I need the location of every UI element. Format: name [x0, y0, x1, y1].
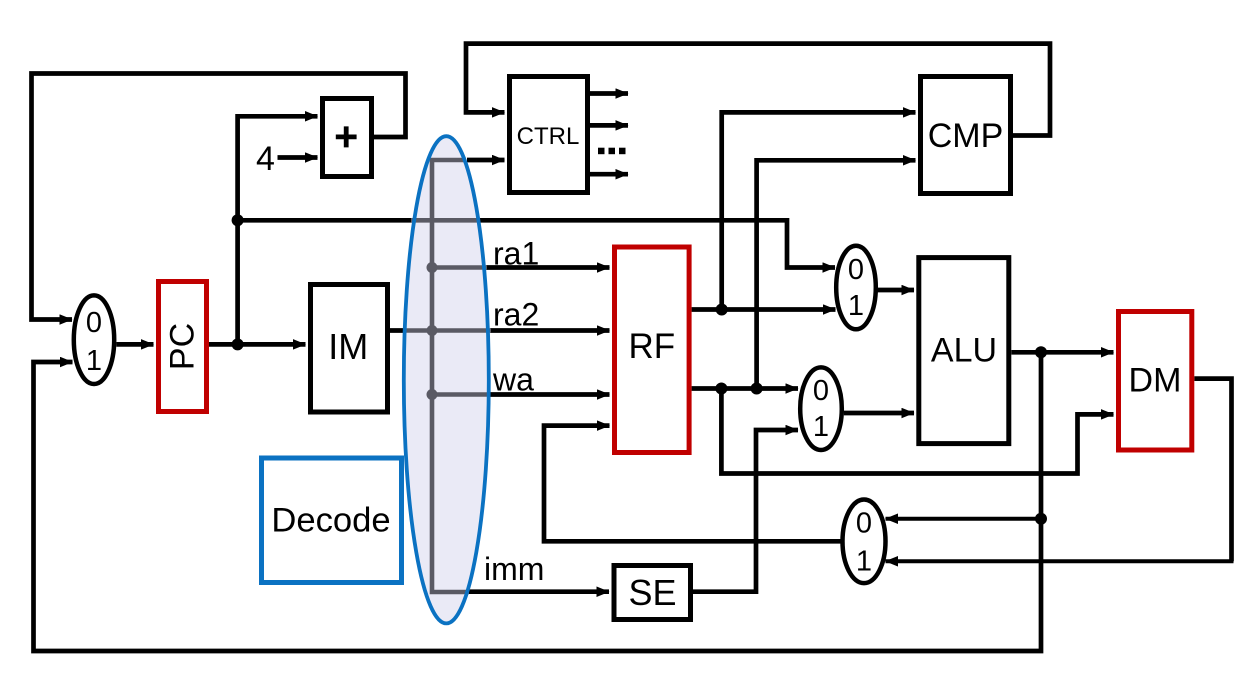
wire PC value long horizontal to upper ALU mux input 0 [238, 220, 835, 267]
junction on PC output [232, 338, 244, 350]
junction ALU result write-back branch [1035, 513, 1047, 525]
svg-text:CMP: CMP [928, 117, 1004, 155]
svg-text:1: 1 [848, 290, 864, 322]
gray bus stub wa [432, 392, 490, 397]
wire bus opcode to CTRL [467, 158, 505, 163]
svg-text:Decode: Decode [271, 502, 390, 540]
svg-text:0: 0 [856, 508, 872, 540]
wire imm to SE [467, 589, 609, 594]
svg-text:IM: IM [328, 326, 368, 367]
ALU operand-2 mux [800, 367, 842, 450]
gray bus stub ra2 with IM input [404, 328, 491, 333]
control unit CTRL [510, 77, 588, 193]
svg-text:ALU: ALU [931, 332, 997, 370]
wire RF read-data-2 to lower ALU mux input 0 [692, 386, 798, 391]
adder + [323, 99, 372, 177]
wire CTRL control output 2 [590, 123, 628, 128]
PC source mux [74, 295, 114, 384]
svg-text:1: 1 [813, 411, 829, 443]
wire PC-mux output to PC [116, 342, 153, 347]
svg-text:ra1: ra1 [493, 236, 539, 272]
wire lower mux output to ALU input 2 [844, 411, 914, 416]
ellipsis dots for control outputs [598, 148, 626, 155]
wire RF read-data-1 to upper ALU mux input 1 [692, 307, 836, 312]
decode block [262, 458, 402, 583]
instruction memory IM [311, 285, 388, 413]
wire ALU result to write-back mux input 0 [886, 517, 1042, 521]
junction on PC vertical at long horizontal [232, 214, 244, 226]
wire CTRL control output 1 [590, 91, 628, 96]
svg-text:SE: SE [628, 572, 676, 613]
svg-text:0: 0 [848, 254, 864, 286]
gray junction ra1 [427, 262, 438, 273]
junction read-data-2 store branch [715, 383, 727, 395]
junction ALU output branch [1035, 346, 1047, 358]
wire SE output to lower ALU mux input 1 [693, 430, 798, 592]
wire CTRL control output 3 [590, 172, 628, 177]
wire DM output final leg into write-back mux input 1 [886, 559, 1234, 563]
svg-text:DM: DM [1129, 362, 1182, 400]
wire write-back mux output to RF write-data [544, 426, 841, 542]
decode bus ellipse outline [404, 136, 489, 623]
svg-text:RF: RF [628, 327, 675, 366]
wire PC value up to adder input 1 [238, 116, 318, 344]
junction read-data-2 CMP branch [751, 383, 763, 395]
wire ALU output to DM address [1011, 350, 1113, 355]
wire IM output to decode bus [390, 328, 432, 333]
write-back mux [843, 500, 886, 584]
svg-text:imm: imm [484, 551, 544, 587]
decode bus ellipse fill [404, 136, 489, 623]
wire ALU result down across bottom to PC mux input 1 [34, 352, 1042, 651]
program counter PC [159, 282, 207, 412]
svg-text:ra2: ra2 [493, 297, 539, 333]
junction read-data-1 branch [716, 304, 728, 316]
gray bus segment of long PC wire inside ellipse [411, 218, 479, 223]
svg-text:0: 0 [813, 375, 829, 407]
wire constant 4 to adder input 2 [278, 155, 318, 160]
gray junction ra2 [427, 325, 438, 336]
wire store-data from read-data-2 down to DM write input [721, 389, 1113, 474]
data memory DM [1119, 312, 1192, 451]
svg-text:4: 4 [256, 140, 275, 178]
gray bus stub ra1 [432, 265, 487, 270]
sign extend SE [614, 566, 691, 620]
wire upper mux output to ALU input 1 [878, 288, 915, 293]
wire wa to RF [489, 392, 610, 397]
arithmetic logic unit ALU [919, 258, 1009, 444]
svg-text:1: 1 [86, 345, 102, 377]
wire read-data-1 up to CMP input 1 [722, 112, 916, 309]
svg-text:wa: wa [492, 362, 534, 398]
gray junction wa [427, 389, 438, 400]
comparator CMP [921, 77, 1011, 194]
gray bus vertical with top corner to CTRL and bottom corner to imm [432, 160, 469, 592]
wire DM output to write-back mux input 1 [1194, 379, 1231, 562]
wire CMP output loop to CTRL input [466, 44, 1050, 136]
wire read-data-2 up to CMP input 2 [757, 160, 916, 388]
wire ra1 to RF [486, 265, 610, 270]
svg-text:0: 0 [86, 307, 102, 339]
svg-text:1: 1 [856, 546, 872, 578]
wire PC output to IM [209, 342, 306, 347]
wire ra2 to RF [490, 328, 610, 333]
svg-text:CTRL: CTRL [517, 123, 580, 150]
wire adder-output loop to PC mux input 0 [32, 74, 406, 320]
register file RF [615, 247, 690, 453]
ALU operand-1 mux [836, 246, 876, 330]
svg-text:PC: PC [164, 323, 202, 370]
